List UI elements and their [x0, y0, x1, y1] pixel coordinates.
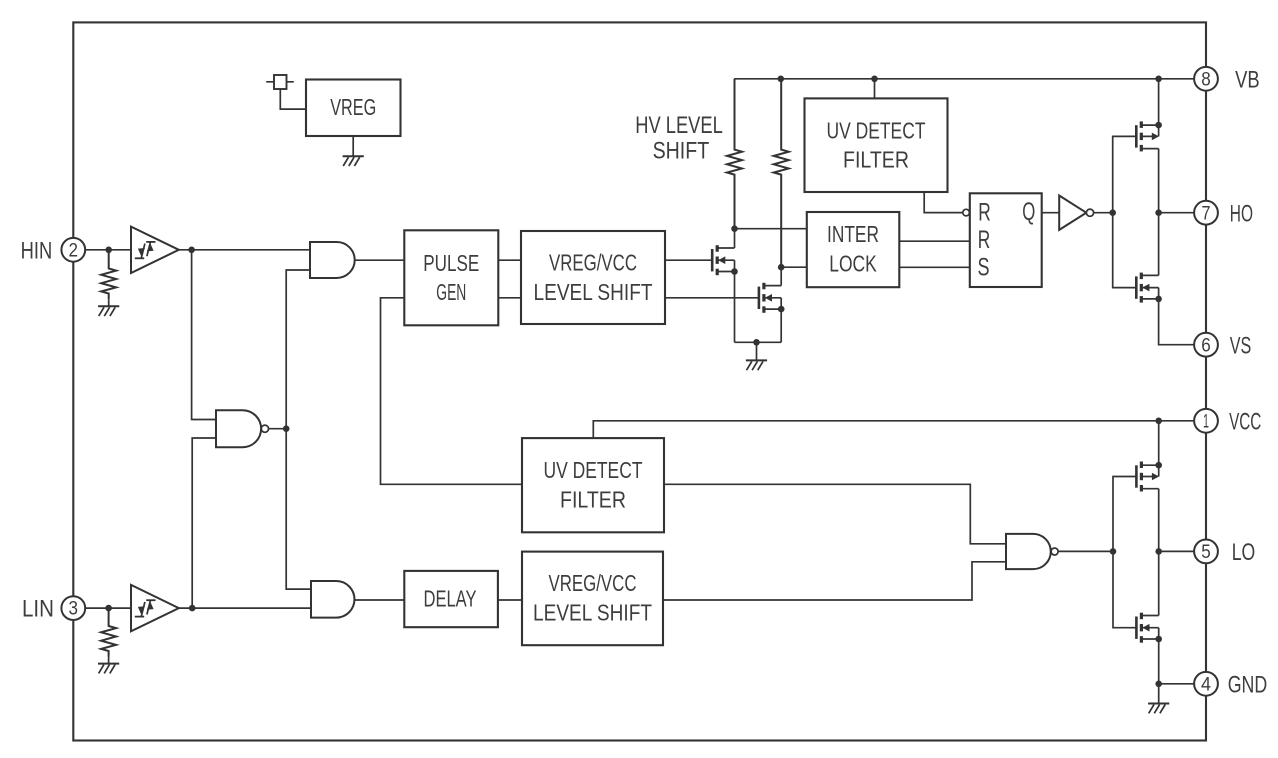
- svg-text:LEVEL SHIFT: LEVEL SHIFT: [533, 600, 652, 626]
- wire PULSE GEN to level shift b: [498, 297, 521, 299]
- INTER LOCK block: [807, 212, 900, 287]
- wire M6 drain: [1158, 551, 1160, 615]
- wire M3 drain: [1158, 149, 1160, 213]
- wire level shift to M1 gate: [665, 259, 712, 261]
- bubble latch R input: [963, 209, 970, 216]
- AND gate U4 (HIN): [310, 242, 355, 278]
- resistor HIN pulldown: [101, 250, 116, 299]
- wire VB to UV filter: [874, 79, 876, 99]
- wire M4 drain: [1158, 213, 1160, 276]
- svg-text:5: 5: [1201, 541, 1211, 563]
- svg-text:VS: VS: [1230, 332, 1252, 359]
- svg-text:S: S: [978, 253, 990, 281]
- svg-text:8: 8: [1201, 68, 1211, 90]
- wire level shift to NAND in2: [663, 562, 1006, 600]
- node HO gate bus: [1109, 209, 1116, 216]
- VREG input pad symbol: [266, 75, 294, 89]
- wire VB to M3 source: [1158, 79, 1160, 125]
- svg-text:LIN: LIN: [22, 596, 54, 623]
- node HIN tap: [105, 247, 112, 254]
- wire M2 source: [780, 309, 782, 342]
- AND gate U7 (LIN): [311, 581, 354, 618]
- wire HIN to NAND in1: [192, 250, 216, 420]
- wire M2 drain: [780, 267, 782, 285]
- node UV feed: [871, 76, 878, 83]
- node NAND out: [283, 425, 290, 432]
- node HIN buffered: [188, 247, 195, 254]
- wire interlock to latch S: [899, 266, 970, 268]
- node LIN buffered: [189, 605, 196, 612]
- node ground tap: [753, 339, 760, 346]
- resistor LIN pulldown: [101, 608, 116, 656]
- node HO: [1155, 209, 1162, 216]
- HV LEVEL SHIFT label: [635, 112, 723, 165]
- wire AND to PULSE GEN: [355, 259, 405, 261]
- svg-text:VB: VB: [1235, 66, 1260, 93]
- transistor M6 (LO pull-down): [1136, 613, 1162, 643]
- svg-text:6: 6: [1201, 334, 1211, 356]
- VB rail: [734, 78, 1195, 80]
- DELAY block: [404, 571, 498, 627]
- wire LIN buffered to AND: [179, 607, 311, 609]
- wire LO to pin: [1159, 550, 1195, 552]
- UV DETECT FILTER block (high side): [805, 98, 948, 192]
- wire HIN: [85, 249, 131, 251]
- wire NAND to lower AND: [286, 429, 311, 589]
- wire interlock in2: [781, 266, 807, 268]
- wire VCC to M5 source: [1158, 421, 1160, 465]
- resistor R1 (HV level shift): [727, 79, 742, 229]
- svg-text:4: 4: [1201, 673, 1211, 695]
- wire AND to DELAY: [354, 599, 404, 601]
- svg-text:FILTER: FILTER: [843, 147, 909, 173]
- svg-text:VREG/VCC: VREG/VCC: [549, 250, 637, 276]
- wire PULSE GEN to UV filter (low): [381, 298, 523, 485]
- Schmitt trigger (HIN): [131, 227, 179, 273]
- wire level shift to M2 gate: [665, 297, 759, 299]
- wire UV filter to latch R: [924, 192, 963, 213]
- node GND: [1155, 681, 1162, 688]
- svg-text:VCC: VCC: [1229, 408, 1261, 435]
- GND rail: [1159, 683, 1195, 685]
- node R2 top: [778, 76, 785, 83]
- node VCC tap: [1155, 418, 1162, 425]
- svg-text:VREG: VREG: [330, 94, 376, 120]
- svg-text:SHIFT: SHIFT: [653, 138, 710, 165]
- svg-text:LOCK: LOCK: [829, 250, 877, 276]
- UV DETECT FILTER block (low side): [522, 438, 664, 532]
- wire interlock to latch R: [899, 240, 970, 242]
- wire HIN buffered to AND: [179, 249, 310, 251]
- wire M1 source: [734, 272, 736, 343]
- transistor M5 (LO pull-up): [1136, 462, 1162, 492]
- wire NAND out to gate bus: [1058, 550, 1113, 552]
- pin 1 VCC: [1194, 409, 1218, 433]
- svg-text:2: 2: [69, 239, 79, 261]
- wire LIN: [85, 607, 131, 609]
- pin 8 VB: [1194, 67, 1218, 91]
- inverter U6: [1059, 196, 1093, 230]
- pin 7 HO: [1194, 201, 1218, 225]
- wire interlock in1: [735, 228, 807, 230]
- ground (output stage): [1148, 684, 1169, 714]
- RS latch U5: [970, 193, 1042, 287]
- svg-text:GEN: GEN: [436, 279, 466, 305]
- VREG/VCC LEVEL SHIFT block (high side): [521, 231, 665, 324]
- Schmitt trigger (LIN): [131, 585, 179, 631]
- wire NAND to upper AND: [286, 270, 310, 429]
- wire NAND out: [269, 428, 287, 430]
- transistor M2 (HV level shift): [759, 283, 785, 313]
- transistor M1 (HV level shift): [712, 245, 738, 275]
- wire M6 source to GND: [1158, 639, 1160, 684]
- svg-text:LO: LO: [1232, 539, 1256, 566]
- ground (VREG): [343, 136, 364, 166]
- node M1 drain: [731, 225, 738, 232]
- wire M1 drain: [734, 229, 736, 248]
- pin 2 HIN: [61, 238, 85, 262]
- svg-text:HO: HO: [1230, 200, 1253, 227]
- pin 4 GND: [1194, 672, 1218, 696]
- wire PULSE GEN to level shift a: [498, 259, 521, 261]
- wire M5 drain: [1158, 489, 1160, 552]
- node LO gate bus: [1110, 548, 1117, 555]
- resistor R2 (HV level shift): [774, 79, 789, 267]
- wire latch Q to inverter: [1042, 212, 1060, 214]
- wire M4 source to VS: [1159, 299, 1195, 345]
- NAND gate U3: [216, 410, 269, 447]
- svg-text:GND: GND: [1228, 671, 1268, 698]
- svg-text:R: R: [978, 198, 991, 226]
- HO gate bus: [1113, 136, 1137, 287]
- node LIN tap: [105, 605, 112, 612]
- svg-text:FILTER: FILTER: [560, 487, 626, 513]
- pin 5 LO: [1194, 540, 1218, 564]
- svg-text:INTER: INTER: [827, 221, 879, 247]
- svg-text:7: 7: [1202, 202, 1211, 224]
- pin 3 LIN: [61, 596, 85, 620]
- svg-text:UV DETECT: UV DETECT: [827, 117, 926, 143]
- svg-text:DELAY: DELAY: [424, 585, 477, 611]
- svg-text:3: 3: [69, 598, 79, 620]
- VREG/VCC LEVEL SHIFT block (low side): [522, 552, 663, 646]
- svg-text:VREG/VCC: VREG/VCC: [549, 570, 637, 596]
- svg-text:HIN: HIN: [21, 237, 53, 264]
- wire DELAY to level shift: [498, 599, 522, 601]
- wire UV filter to NAND in1: [664, 484, 1006, 544]
- VREG block: [306, 80, 401, 137]
- wire LIN to NAND in2: [192, 438, 216, 608]
- VCC rail: [593, 421, 1195, 439]
- ground (M1/M2): [746, 342, 767, 370]
- PULSE GEN block: [404, 230, 498, 325]
- node VB tap: [1155, 76, 1162, 83]
- svg-text:PULSE: PULSE: [423, 250, 479, 276]
- wire pad to VREG: [280, 89, 306, 109]
- svg-text:Q: Q: [1022, 198, 1035, 226]
- NAND gate U8 (LO driver): [1006, 534, 1058, 569]
- wire inverter out: [1094, 212, 1113, 214]
- node LO: [1155, 548, 1162, 555]
- LO gate bus: [1113, 477, 1137, 628]
- svg-text:HV LEVEL: HV LEVEL: [635, 112, 723, 139]
- wire source rail: [735, 341, 782, 343]
- pin 6 VS: [1194, 333, 1218, 357]
- svg-text:UV DETECT: UV DETECT: [544, 457, 643, 483]
- node M2 drain: [778, 264, 785, 271]
- svg-text:LEVEL SHIFT: LEVEL SHIFT: [534, 279, 653, 305]
- ground (HIN pulldown): [98, 299, 119, 316]
- svg-text:R: R: [978, 226, 991, 254]
- wire HO to pin: [1159, 212, 1195, 214]
- transistor M3 (HO pull-up): [1136, 121, 1162, 151]
- ground (LIN pulldown): [98, 657, 119, 674]
- svg-text:1: 1: [1203, 410, 1209, 432]
- transistor M4 (HO pull-down): [1136, 273, 1162, 303]
